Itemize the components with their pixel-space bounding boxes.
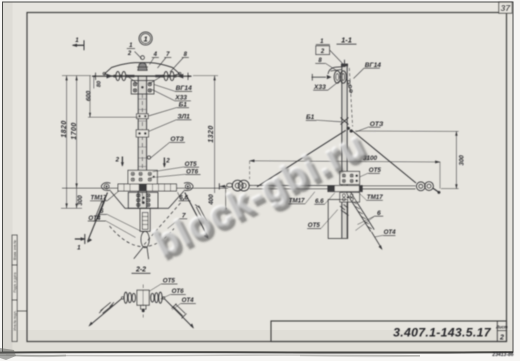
insulator discs (side): [334, 71, 340, 83]
svg-text:300: 300: [459, 155, 466, 166]
ground line: [62, 187, 228, 189]
base lower plate: [128, 192, 158, 208]
svg-text:80: 80: [97, 80, 103, 87]
anchor coils right pair: [416, 182, 425, 191]
RIGHT VIEW: [219, 36, 465, 251]
wire stub: [312, 76, 327, 78]
svg-text:1: 1: [75, 37, 79, 44]
dim 80: [93, 76, 95, 89]
section mark 1 bottom: [75, 238, 85, 240]
svg-text:2: 2: [320, 49, 325, 55]
insulator string left: [107, 74, 113, 79]
pin insulator: [141, 56, 145, 60]
hatched patch below plate: [340, 205, 349, 216]
right wire with turnbuckle: [165, 299, 194, 328]
watermark block-gbi.ru: [147, 123, 377, 269]
svg-text:6: 6: [377, 210, 381, 217]
top bracket: [328, 66, 346, 74]
svg-text:1700: 1700: [71, 122, 78, 140]
dimension extension lines: [62, 75, 91, 77]
svg-text:1-1: 1-1: [341, 36, 352, 45]
crossarm: [105, 63, 180, 76]
bottom fitting: [141, 305, 146, 309]
right guy: [352, 131, 416, 184]
svg-text:37: 37: [501, 3, 512, 13]
braces under crossarm: [129, 77, 138, 84]
swing arc dashed right-down: [143, 199, 185, 247]
svg-text:23413-86: 23413-86: [491, 352, 513, 358]
svg-text:ОТ5: ОТ5: [308, 222, 321, 229]
svg-text:1: 1: [144, 35, 148, 44]
beam end view: [328, 186, 362, 192]
guy attachment fitting: [147, 156, 150, 159]
anchor coils left pair: [232, 180, 243, 191]
svg-text:Б1: Б1: [306, 114, 315, 121]
LEFT VIEW: [61, 32, 228, 259]
right guy wire: [185, 193, 208, 238]
left margin column boxes: [12, 235, 27, 342]
crossarm tip knobs: [103, 72, 106, 75]
svg-text:1: 1: [77, 245, 81, 252]
ground anchor rod: [218, 183, 220, 189]
right lug: [184, 183, 193, 191]
svg-text:Х33: Х33: [313, 84, 326, 91]
svg-text:Подп. и дата: Подп. и дата: [13, 272, 17, 292]
joint band B1: [137, 114, 149, 119]
pole butt: [140, 208, 150, 231]
position balloon 1: [139, 32, 152, 45]
svg-text:2: 2: [115, 157, 120, 164]
X-fitting on pole: [341, 118, 349, 125]
dim 400 right: [225, 186, 227, 208]
base upper plate: [340, 171, 360, 184]
top bracket plate: [131, 81, 154, 95]
foundation block: [328, 200, 348, 239]
svg-text:1320: 1320: [208, 125, 215, 143]
dim 3100: [250, 161, 440, 162]
central clamp box: [137, 290, 149, 305]
svg-text:ОТ5: ОТ5: [369, 167, 382, 174]
svg-text:Взам. инв.№: Взам. инв.№: [13, 240, 17, 260]
hardware chain to pole: [347, 81, 350, 84]
skirt trapezoid: [111, 191, 184, 208]
SECTION 2-2: [88, 267, 195, 329]
insulator string right: [177, 74, 183, 79]
svg-text:ОТЗ: ОТЗ: [370, 121, 384, 128]
svg-text:Инв.№ подл.: Инв.№ подл.: [13, 310, 17, 330]
svg-text:2: 2: [499, 334, 504, 341]
left wire with turnbuckle: [90, 299, 122, 326]
center axis dashes: [142, 285, 144, 318]
svg-text:3.407.1-143.5.17: 3.407.1-143.5.17: [393, 325, 492, 339]
dim 1320 right: [193, 75, 218, 77]
svg-text:Лист: Лист: [495, 325, 508, 330]
swing arc dashed left-right: [110, 226, 175, 247]
svg-text:ОТ5: ОТ5: [163, 278, 176, 285]
svg-text:2: 2: [127, 51, 132, 57]
right discs: [151, 293, 154, 302]
pole (side view): [342, 66, 347, 239]
conductor wire: [92, 75, 192, 77]
apex guy fitting: [347, 127, 350, 130]
base upper plate: [128, 170, 157, 184]
svg-text:300: 300: [77, 195, 84, 206]
svg-text:600: 600: [86, 90, 93, 101]
left guy: [257, 130, 346, 187]
dim 1700: [76, 76, 78, 189]
svg-text:1820: 1820: [61, 120, 68, 138]
dim 300 vertical: [355, 130, 459, 132]
dim 1820: [66, 76, 68, 209]
svg-text:ОТ6: ОТ6: [172, 288, 185, 295]
dim 600: [89, 76, 91, 118]
joint band ZL1: [136, 130, 148, 137]
base beam: [118, 184, 176, 191]
svg-text:ОТ4: ОТ4: [182, 297, 195, 304]
below-beam plate: [340, 193, 360, 202]
svg-text:ОТ4: ОТ4: [384, 229, 397, 236]
svg-text:ВГ14: ВГ14: [365, 62, 381, 69]
anchor loop: [141, 231, 149, 247]
strut (hatched): [347, 193, 371, 231]
title block: [271, 321, 507, 342]
svg-text:2: 2: [165, 158, 170, 165]
dashed guy rod behind pole: [349, 68, 352, 127]
left lug: [101, 183, 110, 191]
page number box 37: [499, 2, 512, 13]
left guy wire: [88, 193, 108, 242]
bottom scan edge smudge: [0, 351, 513, 354]
left discs: [132, 293, 135, 302]
dim 300: [76, 188, 78, 208]
svg-text:2-2: 2-2: [135, 267, 146, 274]
pole: [138, 76, 146, 209]
